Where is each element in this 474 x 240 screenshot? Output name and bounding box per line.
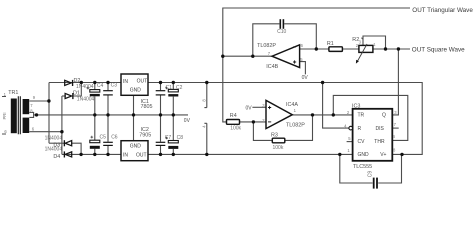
wire triangular output net (riser to R4) [223,8,410,122]
wire IC4 power pin 8 [204,83,206,108]
svg-text:C6: C6 [111,135,118,141]
resistor R3 100k [271,133,285,151]
svg-text:OUT: OUT [136,153,147,159]
wire C1 stubs [160,83,162,115]
node regulators GND on 0V [132,113,135,116]
wire C2 stubs [172,83,174,115]
node C6 on -rail [106,153,109,156]
svg-text:C3: C3 [111,83,118,89]
node C9 left on -rail [338,153,341,156]
svg-text:OUT Triangular Wave: OUT Triangular Wave [412,7,473,14]
wire bottom secondary end [29,131,62,133]
svg-text:DIS: DIS [376,126,385,132]
node C3 on +rail [106,81,109,84]
node C4 on +rail [93,81,96,84]
svg-text:R: R [358,126,362,132]
wire -rail (D4 anode to IC3 GND) [62,153,353,155]
svg-text:1N4004: 1N4004 [45,147,63,153]
wire R3 feedback [253,115,312,140]
wire C8 stubs [172,115,174,154]
svg-text:C5: C5 [100,135,107,141]
wire D3 cathode line [49,142,65,144]
svg-text:V+: V+ [380,152,386,158]
wire D3 anode jog down to -rail [71,143,81,154]
svg-text:IC4A: IC4A [286,102,298,108]
wire IC1 GND / IC2 GND column [133,95,135,140]
node triangular riser on pin7 wire [221,55,224,58]
svg-text:100k: 100k [273,145,284,151]
node Q riser on square line [397,47,400,50]
wire IC4A output to IC3 TR [292,114,352,116]
node C1 on +rail [159,81,162,84]
node C8 on -rail [172,153,175,156]
capacitor C1 [156,85,172,96]
capacitor C3 [103,83,117,96]
svg-text:0V: 0V [184,118,191,124]
wire R2 wiper loop [361,36,385,49]
svg-text:C4: C4 [97,83,104,89]
svg-text:TR: TR [358,113,365,119]
node C9 right on V+ [400,153,403,156]
svg-text:OUT Square Wave: OUT Square Wave [412,46,465,53]
wire R1 to R2 [342,48,359,50]
svg-text:D1: D1 [73,91,80,97]
svg-text:TLC555: TLC555 [353,164,372,170]
svg-text:GND: GND [130,144,142,150]
svg-text:C9: C9 [367,171,373,178]
svg-text:R3: R3 [271,133,278,139]
node D1 cathode on +rail [80,81,83,84]
node C1/C7 on 0V [159,113,162,116]
wire C10 feedback loop [253,24,316,56]
wire top secondary end [29,100,49,102]
svg-text:C10: C10 [277,29,286,35]
wire C4 stubs [94,83,96,115]
diode D2 1N4004 [65,78,94,90]
node C2 on +rail [172,81,175,84]
node C2/C8 on 0V [172,113,175,116]
wire IC4B pin5 to 0V [300,62,306,75]
svg-text:TR1: TR1 [8,90,18,96]
wire center tap [29,112,33,117]
node C3/C6 on 0V [106,113,109,116]
node C4/C5 on 0V [93,113,96,116]
wire TR-THR link loop [333,95,408,140]
svg-text:D2: D2 [74,78,81,84]
wire Q output riser to square line [392,49,398,115]
svg-text:OUT: OUT [137,79,148,85]
wire D1 cathode jog up to +rail [72,83,81,97]
svg-text:IC4B: IC4B [266,64,278,70]
capacitor C4 (electrolytic) [87,83,104,96]
wire R2 to square out [373,48,410,50]
potentiometer R2 [352,37,376,63]
svg-text:Q: Q [382,113,386,119]
node R1 left / pin6 [315,47,318,50]
wire CV stub [347,141,353,143]
node reset net on +rail [321,81,324,84]
svg-text:C2: C2 [176,85,183,91]
svg-text:THR: THR [374,139,385,145]
svg-text:PRI: PRI [2,113,7,120]
node R2 wiper on square line [384,47,387,50]
wire IC4 power pin 4 [204,123,206,154]
diode D1 1N4004 [65,91,94,103]
node C10 riser on pin7 wire [251,55,254,58]
svg-text:7905: 7905 [139,133,151,139]
wire C7 stubs [160,115,162,154]
wire +rail left segment (bridge output to IC1 IN) [49,82,121,84]
node IC4 pin4 on -rail [205,153,208,156]
svg-text:TL082P: TL082P [286,123,305,129]
wire D1 anode stub [62,95,66,97]
svg-text:CV: CV [358,139,366,145]
wire riser D2 anode / top secondary / D3 cathode [48,83,50,144]
svg-text:GND: GND [358,152,370,158]
svg-text:TL082P: TL082P [257,43,276,49]
wire IC4B pin 6 to R1 [300,48,329,50]
diode D3 1N4004 [45,135,72,148]
wire riser D1 anode / bottom secondary / D4 cathode [61,96,63,154]
capacitor C2 (electrolytic) [165,85,183,97]
diode D4 1N4004 [45,147,72,161]
capacitor C8 (electrolytic) [165,135,183,149]
svg-text:GND: GND [130,88,142,94]
svg-text:IN: IN [123,79,128,85]
capacitor C10 [277,19,286,35]
capacitor C9 [367,171,378,189]
svg-text:R4: R4 [230,113,237,119]
node top secondary / D2 D3 [47,99,50,102]
capacitor C6 [103,135,118,146]
wire C6 stubs [107,115,109,154]
wire 0V rail [34,114,188,116]
resistor R4 100k [227,113,242,131]
svg-text:1N4004: 1N4004 [45,135,63,141]
node bottom secondary / D1 D4 [60,130,63,133]
op-amp IC4B TL082P [257,43,304,70]
wire +rail right segment (IC1 OUT across to V+ loop of IC3) [148,83,422,155]
transformer TR1 [2,90,36,134]
node D3 anode on -rail [79,153,82,156]
svg-text:100k: 100k [230,125,241,131]
svg-text:D4: D4 [53,154,60,160]
wire IC3 reset net from +rail [323,83,349,129]
node R4/R3 at IC4A pin2 [252,120,255,123]
wire C3 stubs [107,83,109,115]
svg-text:IN: IN [123,153,128,159]
node center tap 0V [35,113,38,116]
wire IC4B output (pin 7) [223,55,272,57]
node C7 on -rail [159,153,162,156]
timer IC3 TLC555 [344,104,397,170]
wire R4 to IC4A pin2 [240,121,267,123]
svg-text:0V: 0V [302,75,309,81]
regulator IC1 7805 [121,74,153,110]
node C5 on -rail [93,153,96,156]
wire C5 stubs [94,115,96,154]
svg-text:C8: C8 [177,135,184,141]
wire C9 loop [340,154,402,183]
svg-text:0V: 0V [246,106,253,112]
node IC4 pin8 on +rail [205,81,208,84]
resistor R1 [327,41,343,52]
capacitor C5 (electrolytic) [90,135,106,149]
wire DIS stub [392,127,398,129]
node R3 right on output [311,113,314,116]
wire IC4A pin3 0V [252,106,266,108]
node THR riser on output [332,113,335,116]
svg-text:1N4004: 1N4004 [77,97,95,103]
svg-text:R1: R1 [327,41,334,47]
svg-text:7805: 7805 [141,104,153,110]
op-amp IC4A TL082P [262,100,305,128]
capacitor C7 [156,135,172,146]
wire transformer primary pin stubs [2,97,6,135]
svg-text:IC3: IC3 [352,104,360,110]
regulator IC2 7905 [121,127,151,161]
